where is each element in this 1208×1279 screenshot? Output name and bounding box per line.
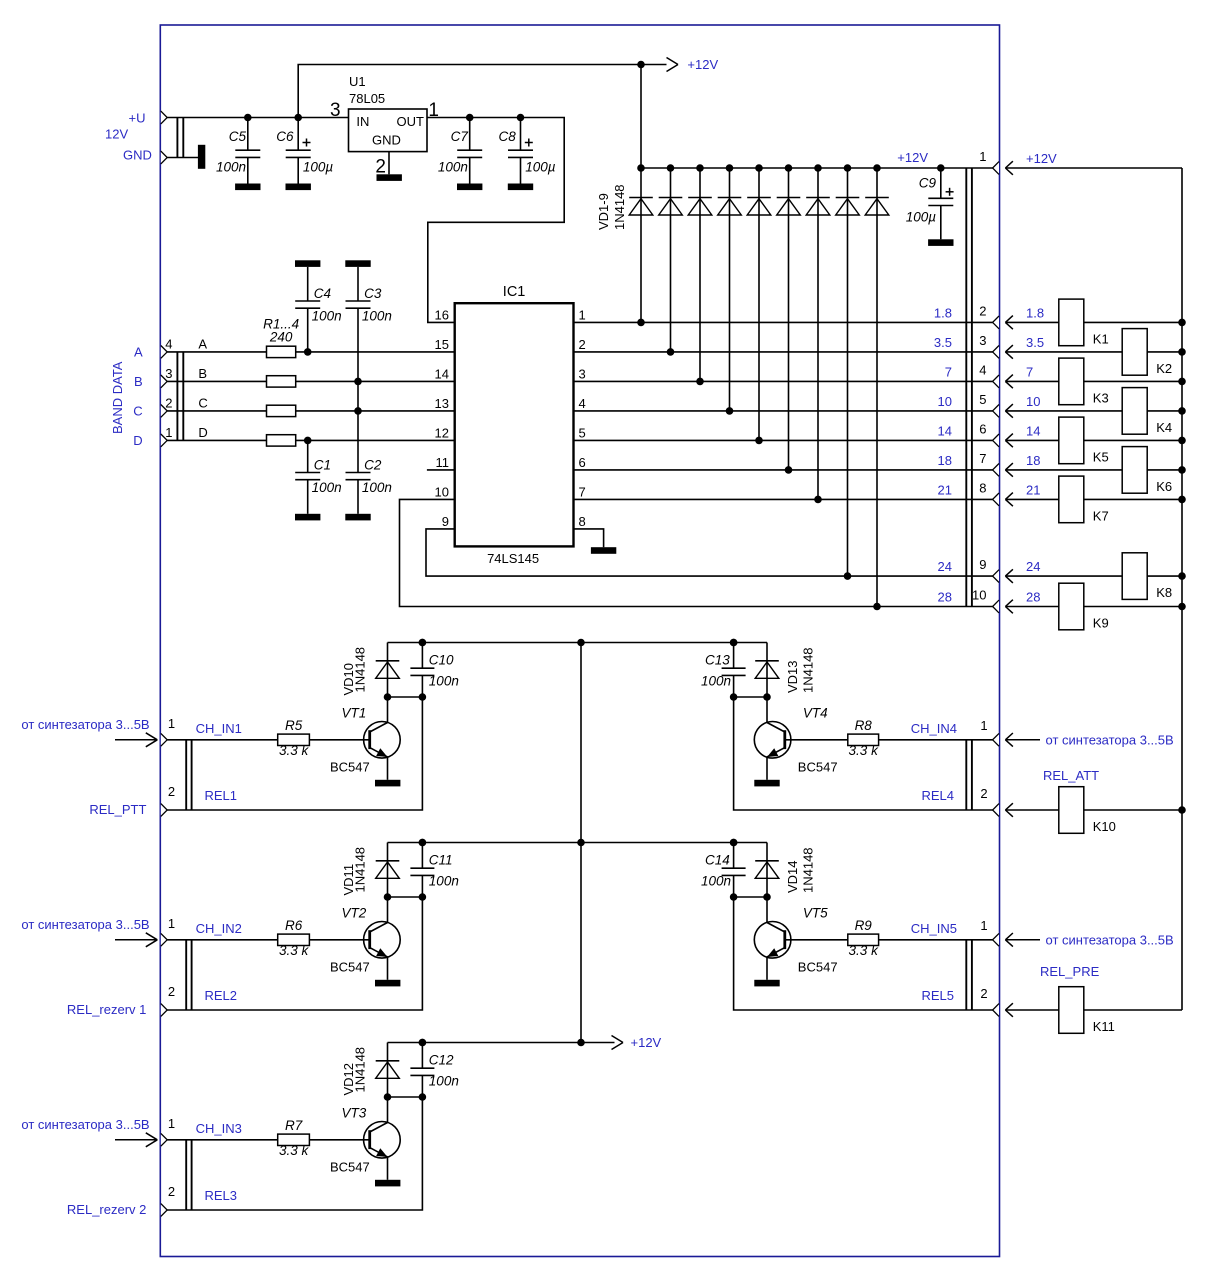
capacitor C12 <box>410 1043 458 1098</box>
relay K5 <box>1059 417 1109 464</box>
wire REL1 <box>167 697 422 810</box>
net label CH_IN4 <box>911 721 957 736</box>
svg-text:14: 14 <box>1026 423 1040 438</box>
net label 3.5 (right) <box>1026 335 1044 350</box>
svg-text:1: 1 <box>579 308 586 323</box>
svg-text:C5: C5 <box>229 129 247 144</box>
pin 6 of K connector (triangle) <box>993 434 999 447</box>
svg-text:1N4148: 1N4148 <box>352 1047 367 1093</box>
wire U1 GND pin <box>388 152 390 175</box>
wire pin 1 to +12V bus <box>1005 167 1182 169</box>
relay K1 <box>1059 299 1109 346</box>
pin 11 stub wire <box>427 469 455 471</box>
label VT3 <box>342 1106 367 1121</box>
label 74LS145 <box>487 551 539 566</box>
transistor VT4 BC547 <box>754 722 791 759</box>
diode VD4 1N4148 <box>718 164 742 415</box>
pin 8 number <box>979 480 986 495</box>
label VD1-9 <box>596 193 611 230</box>
wire collector VT4 <box>766 697 768 723</box>
arrow into pin 1 <box>1005 161 1013 175</box>
wire +5V from U1 OUT to IC1 pin 16 <box>427 118 564 323</box>
svg-text:100n: 100n <box>429 1073 459 1088</box>
ground bar IC1 pin 8 <box>591 547 616 554</box>
svg-text:11: 11 <box>436 455 450 470</box>
transistor VT2 BC547 <box>364 922 401 959</box>
pin 3 number <box>579 367 586 382</box>
svg-text:12: 12 <box>435 426 449 441</box>
wire pin 7 to +12V bus <box>1005 469 1182 471</box>
svg-text:CH_IN5: CH_IN5 <box>911 921 957 936</box>
pin 1 of CH_IN4 <box>980 718 987 733</box>
svg-text:12V: 12V <box>105 127 128 142</box>
svg-text:8: 8 <box>579 514 586 529</box>
net label 10 (left) <box>938 394 952 409</box>
net label REL1 <box>205 788 238 803</box>
relay K7 <box>1059 476 1109 523</box>
junction C13 rail <box>730 639 738 647</box>
svg-text:от синтезатора 3...5В: от синтезатора 3...5В <box>1046 732 1174 747</box>
pin 7 number <box>579 485 586 500</box>
svg-text:BC547: BC547 <box>330 760 370 775</box>
arrow input CH_IN2 <box>115 933 157 947</box>
svg-text:C6: C6 <box>276 129 294 144</box>
junction C5/+U <box>244 114 252 122</box>
wire REL3 <box>167 1097 422 1210</box>
svg-text:B: B <box>134 374 143 389</box>
junction K1/+12V bus <box>1178 319 1186 327</box>
svg-text:28: 28 <box>1026 590 1040 605</box>
svg-text:21: 21 <box>938 482 952 497</box>
wire IC1 pin 5 output row <box>574 439 993 441</box>
label input synth VT5 <box>1046 932 1174 947</box>
junction C11 rail <box>419 839 427 847</box>
svg-text:+U: +U <box>129 110 146 125</box>
svg-text:K7: K7 <box>1093 508 1109 523</box>
svg-text:1N4148: 1N4148 <box>612 184 627 230</box>
arrow into pin 6 <box>1005 434 1013 448</box>
signal label A <box>198 336 207 351</box>
svg-text:3.3 k: 3.3 k <box>849 743 880 758</box>
junction B/C3 <box>354 378 362 386</box>
pin 9 number <box>979 557 986 572</box>
svg-text:1: 1 <box>168 716 175 731</box>
diode VD11 1N4148 <box>376 843 400 898</box>
junction mid bus row3 <box>577 1039 585 1047</box>
wire pin 9 to +12V bus <box>1005 575 1182 577</box>
junction mid bus row2 <box>577 839 585 847</box>
net label REL_ATT <box>1043 768 1099 783</box>
svg-text:3.3 k: 3.3 k <box>849 943 880 958</box>
wire emitter VT3 <box>387 1157 389 1180</box>
svg-text:CH_IN3: CH_IN3 <box>196 1121 242 1136</box>
relay K3 <box>1059 358 1109 405</box>
svg-text:A: A <box>134 345 143 360</box>
svg-text:R6: R6 <box>285 918 303 933</box>
junction K9/+12V bus <box>1178 603 1186 611</box>
wire IC1 pin 1 output row <box>574 321 993 323</box>
label 1N4148 (VD12) <box>352 1047 367 1093</box>
relay K8 <box>1122 553 1172 600</box>
junction K10 bus <box>1178 806 1186 814</box>
junction C10 node <box>419 693 427 701</box>
transistor VT5 BC547 <box>754 922 791 959</box>
label VD13 <box>785 660 800 693</box>
svg-text:3.5: 3.5 <box>934 335 952 350</box>
wire IC1 pin 2 output row <box>574 351 993 353</box>
svg-text:28: 28 <box>938 590 952 605</box>
pin 2 number <box>579 337 586 352</box>
pin 9 of K connector (triangle) <box>993 570 999 583</box>
junction K7/+12V bus <box>1178 496 1186 504</box>
svg-text:13: 13 <box>435 396 449 411</box>
net label 12V <box>105 127 128 142</box>
svg-text:10: 10 <box>1026 394 1040 409</box>
wire REL5 <box>734 897 993 1010</box>
svg-text:5: 5 <box>579 426 586 441</box>
relay K11 <box>1059 987 1115 1034</box>
net label REL_rezerv 2 <box>67 1202 146 1217</box>
pin 7 of K connector (triangle) <box>993 464 999 477</box>
net label CH_IN2 <box>196 921 242 936</box>
svg-text:K4: K4 <box>1156 420 1172 435</box>
wire pin 3 to +12V bus <box>1005 351 1182 353</box>
svg-text:REL_PRE: REL_PRE <box>1040 964 1100 979</box>
label input synth VT1 <box>21 717 149 732</box>
junction VD10 node <box>384 693 392 701</box>
svg-text:1N4148: 1N4148 <box>352 647 367 693</box>
svg-text:R7: R7 <box>285 1118 303 1133</box>
svg-text:6: 6 <box>579 455 586 470</box>
value 3.3 k (R7) <box>279 1143 310 1158</box>
wire B row <box>167 380 455 382</box>
label input synth VT4 <box>1046 732 1174 747</box>
wire collector VT5 <box>766 897 768 923</box>
svg-text:10: 10 <box>972 588 986 603</box>
label BC547 (VT3) <box>330 1160 370 1175</box>
svg-text:1: 1 <box>980 718 987 733</box>
label VT4 <box>803 706 828 721</box>
signal label D <box>198 425 207 440</box>
pin 4 of K connector (triangle) <box>993 375 999 388</box>
ground bar VT4 <box>754 780 779 787</box>
wire collector VT1 <box>387 697 389 723</box>
svg-text:2: 2 <box>980 786 987 801</box>
svg-text:C11: C11 <box>429 852 453 867</box>
net label CH_IN3 <box>196 1121 242 1136</box>
capacitor C9 (polarized) <box>906 164 954 246</box>
capacitor C1 <box>295 440 342 520</box>
svg-text:5: 5 <box>979 392 986 407</box>
pin 1 of K connector (triangle) <box>993 162 999 175</box>
svg-text:REL5: REL5 <box>921 988 954 1003</box>
pin 2 of REL4 <box>980 786 987 801</box>
resistor R7 <box>278 1134 310 1145</box>
svg-text:100n: 100n <box>701 673 731 688</box>
resistor R6 <box>278 934 310 945</box>
svg-text:1: 1 <box>980 918 987 933</box>
pin 3 of BAND DATA connector <box>165 366 172 381</box>
svg-text:78L05: 78L05 <box>349 91 385 106</box>
svg-text:K9: K9 <box>1093 616 1109 631</box>
ground bar VT2 <box>375 980 400 987</box>
svg-text:1.8: 1.8 <box>934 305 952 320</box>
value 3.3 k (R6) <box>279 943 310 958</box>
wire emitter VT5 <box>766 957 768 980</box>
diode VD2 1N4148 <box>659 164 683 356</box>
net label 14 (left) <box>938 423 952 438</box>
svg-text:240: 240 <box>269 330 293 345</box>
svg-text:R8: R8 <box>855 718 873 733</box>
pin 1 number <box>979 149 986 164</box>
net label REL2 <box>205 988 238 1003</box>
label R1...4 <box>263 317 299 332</box>
wire collector node VT1 <box>388 696 423 698</box>
pin 4 number <box>579 396 586 411</box>
label BC547 (VT4) <box>798 760 838 775</box>
wire pin 4 to +12V bus <box>1005 380 1182 382</box>
resistor R2 <box>267 376 296 387</box>
svg-text:C3: C3 <box>364 286 382 301</box>
junction C14 node <box>730 893 738 901</box>
svg-text:7: 7 <box>945 364 952 379</box>
wire GND input <box>167 157 198 159</box>
value 3.3 k (R9) <box>849 943 880 958</box>
capacitor C13 <box>701 643 746 698</box>
svg-text:C14: C14 <box>705 852 730 867</box>
pin 2 of REL1 <box>168 784 175 799</box>
pin 10 number <box>972 588 986 603</box>
capacitor C8 (polarized) <box>499 118 556 191</box>
svg-text:3.3 k: 3.3 k <box>279 943 310 958</box>
connector K outputs (10 pin) <box>966 168 972 607</box>
label R6 <box>285 918 303 933</box>
label BC547 (VT2) <box>330 960 370 975</box>
junction C13 node <box>730 693 738 701</box>
wire base VT2 <box>309 939 369 941</box>
svg-text:CH_IN2: CH_IN2 <box>196 921 242 936</box>
svg-text:14: 14 <box>435 367 449 382</box>
label BAND DATA <box>110 361 125 434</box>
junction A/C4 <box>304 348 312 356</box>
junction C12 rail <box>419 1039 427 1047</box>
wire pin 10 to +12V bus <box>1005 606 1182 608</box>
wire emitter VT4 <box>766 757 768 780</box>
relay K2 <box>1122 329 1172 376</box>
junction C11 rail <box>419 839 427 847</box>
svg-text:9: 9 <box>979 557 986 572</box>
wire base VT3 <box>309 1139 369 1141</box>
ground bar VT3 <box>375 1180 400 1187</box>
label 1N4148 (VD14) <box>801 847 816 893</box>
wire collector node VT5 <box>734 896 767 898</box>
svg-text:10: 10 <box>938 394 952 409</box>
svg-text:7: 7 <box>979 451 986 466</box>
resistor R1 <box>267 346 296 357</box>
wire C row <box>167 410 455 412</box>
junction VD11 node <box>384 893 392 901</box>
pin 8 of K connector (triangle) <box>993 493 999 506</box>
pin 15 number <box>435 337 449 352</box>
junction +12V rail / diode feed <box>637 61 645 69</box>
svg-text:100n: 100n <box>312 309 342 324</box>
svg-text:6: 6 <box>979 421 986 436</box>
wire +12V rail row 3 <box>388 1042 615 1044</box>
pin 2 of REL3 <box>168 1184 175 1199</box>
arrow into pin 2 <box>1005 316 1013 330</box>
label VT5 <box>803 906 828 921</box>
wire +12V diode rail <box>641 65 993 169</box>
wire collector node VT4 <box>734 696 767 698</box>
pin 6 number <box>579 455 586 470</box>
pin 12 number <box>435 426 449 441</box>
svg-text:REL4: REL4 <box>921 788 954 803</box>
junction C8/+5V <box>517 114 525 122</box>
arrow into pin 4 <box>1005 375 1013 389</box>
svg-text:REL_rezerv 2: REL_rezerv 2 <box>67 1202 146 1217</box>
net label 7 (left) <box>945 364 952 379</box>
arrow into pin 5 <box>1005 404 1013 418</box>
wire A row <box>167 351 455 353</box>
svg-text:GND: GND <box>372 133 401 148</box>
svg-text:1: 1 <box>168 916 175 931</box>
junction C14 rail <box>730 839 738 847</box>
pin 2 of REL2 <box>168 984 175 999</box>
svg-text:14: 14 <box>938 423 952 438</box>
svg-text:REL1: REL1 <box>205 788 238 803</box>
svg-text:+12V: +12V <box>687 57 718 72</box>
wire CH_IN5 <box>879 939 993 941</box>
pin 3 of K connector (triangle) <box>993 346 999 359</box>
svg-text:от синтезатора 3...5В: от синтезатора 3...5В <box>21 717 149 732</box>
svg-text:C12: C12 <box>429 1052 454 1067</box>
wire +12V mid bus <box>580 643 582 1043</box>
capacitor C3 <box>345 260 392 381</box>
capacitor C5 <box>216 118 261 191</box>
wire C3 to C2 (through B and C rows) <box>357 381 359 472</box>
wire base VT5 <box>785 939 848 941</box>
label VD14 <box>785 860 800 893</box>
diode VD10 1N4148 <box>376 643 400 698</box>
svg-text:K8: K8 <box>1156 585 1172 600</box>
wire pin 6 to +12V bus <box>1005 439 1182 441</box>
svg-text:1N4148: 1N4148 <box>801 647 816 693</box>
svg-text:8: 8 <box>979 480 986 495</box>
net label 21 (left) <box>938 482 952 497</box>
connector CH_IN4/REL4 <box>966 733 999 816</box>
pin 2 of K connector (triangle) <box>993 316 999 329</box>
label 1N4148 (VD10) <box>352 647 367 693</box>
net label 18 (left) <box>938 453 952 468</box>
label R7 <box>285 1118 303 1133</box>
net label REL5 <box>921 988 954 1003</box>
junction C12 node <box>419 1093 427 1101</box>
net label 1.8 (left) <box>934 305 952 320</box>
svg-text:B: B <box>198 366 207 381</box>
svg-text:REL_rezerv 1: REL_rezerv 1 <box>67 1002 146 1017</box>
pin 13 number <box>435 396 449 411</box>
svg-text:100n: 100n <box>438 159 468 174</box>
junction C14 rail <box>730 839 738 847</box>
arrow into pin 10 <box>1005 600 1013 614</box>
IC U1 74LS145 body <box>455 303 574 546</box>
label 1N4148 (VD13) <box>801 647 816 693</box>
schematic border frame <box>160 25 999 1257</box>
wire pin 8 to ground <box>574 529 604 547</box>
value 240 <box>269 330 293 345</box>
net label C (outside) <box>133 404 142 419</box>
svg-text:C2: C2 <box>364 457 382 472</box>
pin 1 of CH_IN1 <box>168 716 175 731</box>
svg-text:4: 4 <box>579 396 586 411</box>
svg-text:2: 2 <box>979 303 986 318</box>
svg-text:VD14: VD14 <box>785 860 800 893</box>
capacitor C6 (polarized) <box>276 118 333 191</box>
diode VD13 1N4148 <box>755 643 779 698</box>
pin 1 of CH_IN3 <box>168 1116 175 1131</box>
svg-text:100n: 100n <box>312 480 342 495</box>
svg-text:100n: 100n <box>429 873 459 888</box>
pin 2 number <box>979 303 986 318</box>
arrow input CH_IN5 <box>1005 933 1040 947</box>
svg-text:4: 4 <box>165 336 172 351</box>
pin 10 number <box>435 485 449 500</box>
wire CH_IN2 <box>167 939 278 941</box>
svg-text:1: 1 <box>979 149 986 164</box>
net label A (outside) <box>134 345 143 360</box>
svg-text:+12V: +12V <box>1026 151 1057 166</box>
svg-text:3.3 k: 3.3 k <box>279 743 310 758</box>
svg-text:1.8: 1.8 <box>1026 305 1044 320</box>
net label 24 (left) <box>938 559 952 574</box>
label BC547 (VT5) <box>798 960 838 975</box>
pin 1 of U1 <box>428 100 439 121</box>
pin 5 of K connector (triangle) <box>993 405 999 418</box>
ground bar U1 <box>377 174 402 181</box>
svg-text:VD13: VD13 <box>785 660 800 693</box>
svg-text:2: 2 <box>168 984 175 999</box>
net label CH_IN1 <box>196 721 242 736</box>
pin 9 number <box>442 514 449 529</box>
pin 1 of CH_IN5 <box>980 918 987 933</box>
svg-text:1N4148: 1N4148 <box>352 847 367 893</box>
net label 10 (right) <box>1026 394 1040 409</box>
wire +U input <box>167 117 348 119</box>
svg-text:100µ: 100µ <box>525 159 556 174</box>
wire REL2 <box>167 897 422 1010</box>
wire +12V unregulated rail <box>298 65 666 118</box>
svg-text:100n: 100n <box>701 873 731 888</box>
svg-text:2: 2 <box>168 1184 175 1199</box>
svg-text:3: 3 <box>979 333 986 348</box>
net label B (outside) <box>134 374 143 389</box>
resistor R9 <box>848 934 879 945</box>
net label 18 (right) <box>1026 453 1040 468</box>
wire REL4 <box>734 697 993 810</box>
connector CH_IN5/REL5 <box>966 933 999 1016</box>
svg-text:REL_ATT: REL_ATT <box>1043 768 1099 783</box>
svg-text:3.3 k: 3.3 k <box>279 1143 310 1158</box>
svg-text:BAND DATA: BAND DATA <box>110 361 125 434</box>
regulator U1 78L05 <box>349 74 428 152</box>
svg-text:10: 10 <box>435 485 449 500</box>
net label 28 (right) <box>1026 590 1040 605</box>
svg-text:3: 3 <box>579 367 586 382</box>
net label REL3 <box>205 1188 238 1203</box>
svg-text:15: 15 <box>435 337 449 352</box>
junction K8/+12V bus <box>1178 572 1186 580</box>
pin 1 of BAND DATA connector <box>165 425 172 440</box>
